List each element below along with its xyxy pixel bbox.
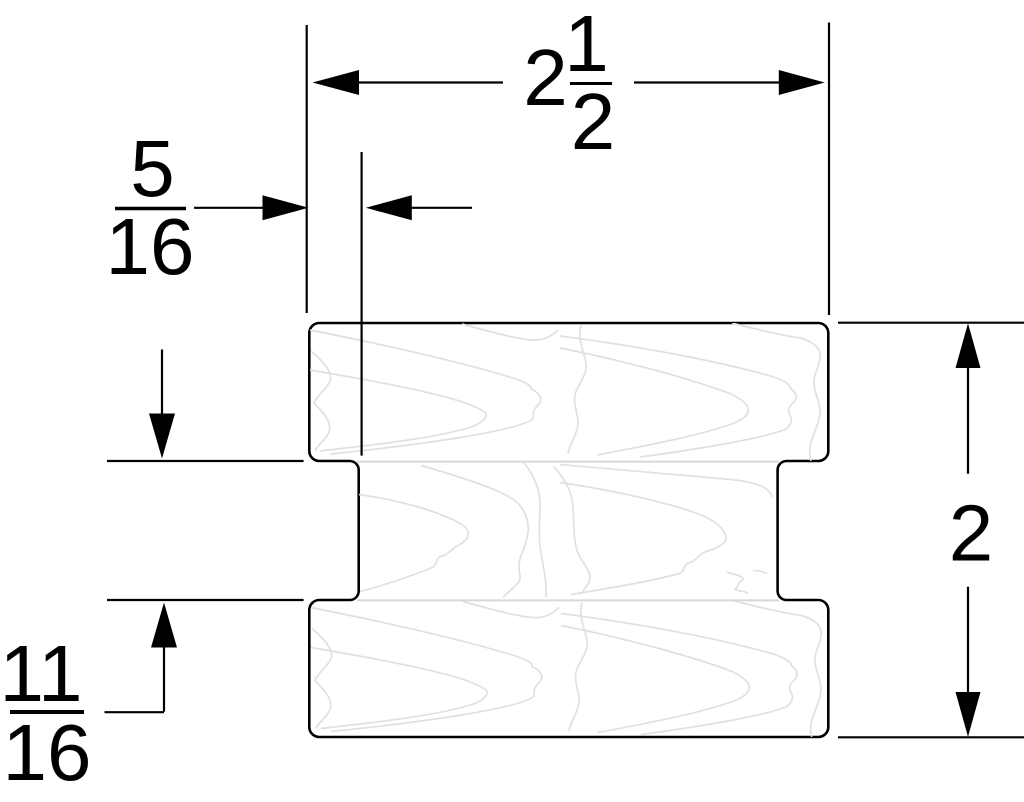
label 2 1/2 [523, 0, 615, 166]
dimension 2 : up arrowhead and stem [956, 323, 981, 368]
label 11/16 [0, 629, 91, 797]
svg-text:2: 2 [523, 33, 568, 122]
dimension 5/16 : left-pointing arrow [410, 207, 472, 209]
svg-text:5: 5 [130, 124, 175, 213]
wood grain texture, three laminated boards [310, 323, 821, 739]
extension line left (top of block, x=306.7) [306, 25, 308, 313]
svg-text:2: 2 [949, 489, 994, 578]
extension line right top (y=322.7) [838, 322, 1024, 324]
svg-text:11: 11 [0, 629, 83, 718]
dimension 2 : down stem and arrowhead [967, 587, 969, 692]
svg-text:2: 2 [571, 77, 616, 166]
dimension 5/16 : label [106, 124, 195, 291]
extension line right bottom (y=737.3) [838, 736, 1024, 738]
glue line between board 1 and 2 [357, 461, 779, 463]
dimension 2 1/2 : right arrowhead [779, 70, 825, 95]
dimension 5/16 : right-pointing arrow [194, 207, 263, 209]
extension line right (x=829) [828, 23, 830, 316]
up arrow to bottom shoulder (11/16 leader) [151, 603, 177, 648]
svg-text:16: 16 [3, 708, 92, 797]
dimension 2 1/2 : left arrowhead [313, 70, 360, 95]
extension line shoulder bottom (y=600) [107, 599, 304, 601]
extension line shoulder top (y=461) [107, 460, 304, 462]
svg-text:16: 16 [106, 202, 195, 291]
extension line for 5/16 (x=361.6, crosses into block) [361, 152, 363, 456]
glue line between board 2 and 3 [357, 599, 779, 601]
board cross-section (white fill, black outline, notched both sides) [309, 323, 828, 737]
svg-text:1: 1 [564, 0, 609, 88]
dimension 2 1/2 : line segments [358, 81, 503, 83]
down arrow to top shoulder [161, 350, 163, 415]
